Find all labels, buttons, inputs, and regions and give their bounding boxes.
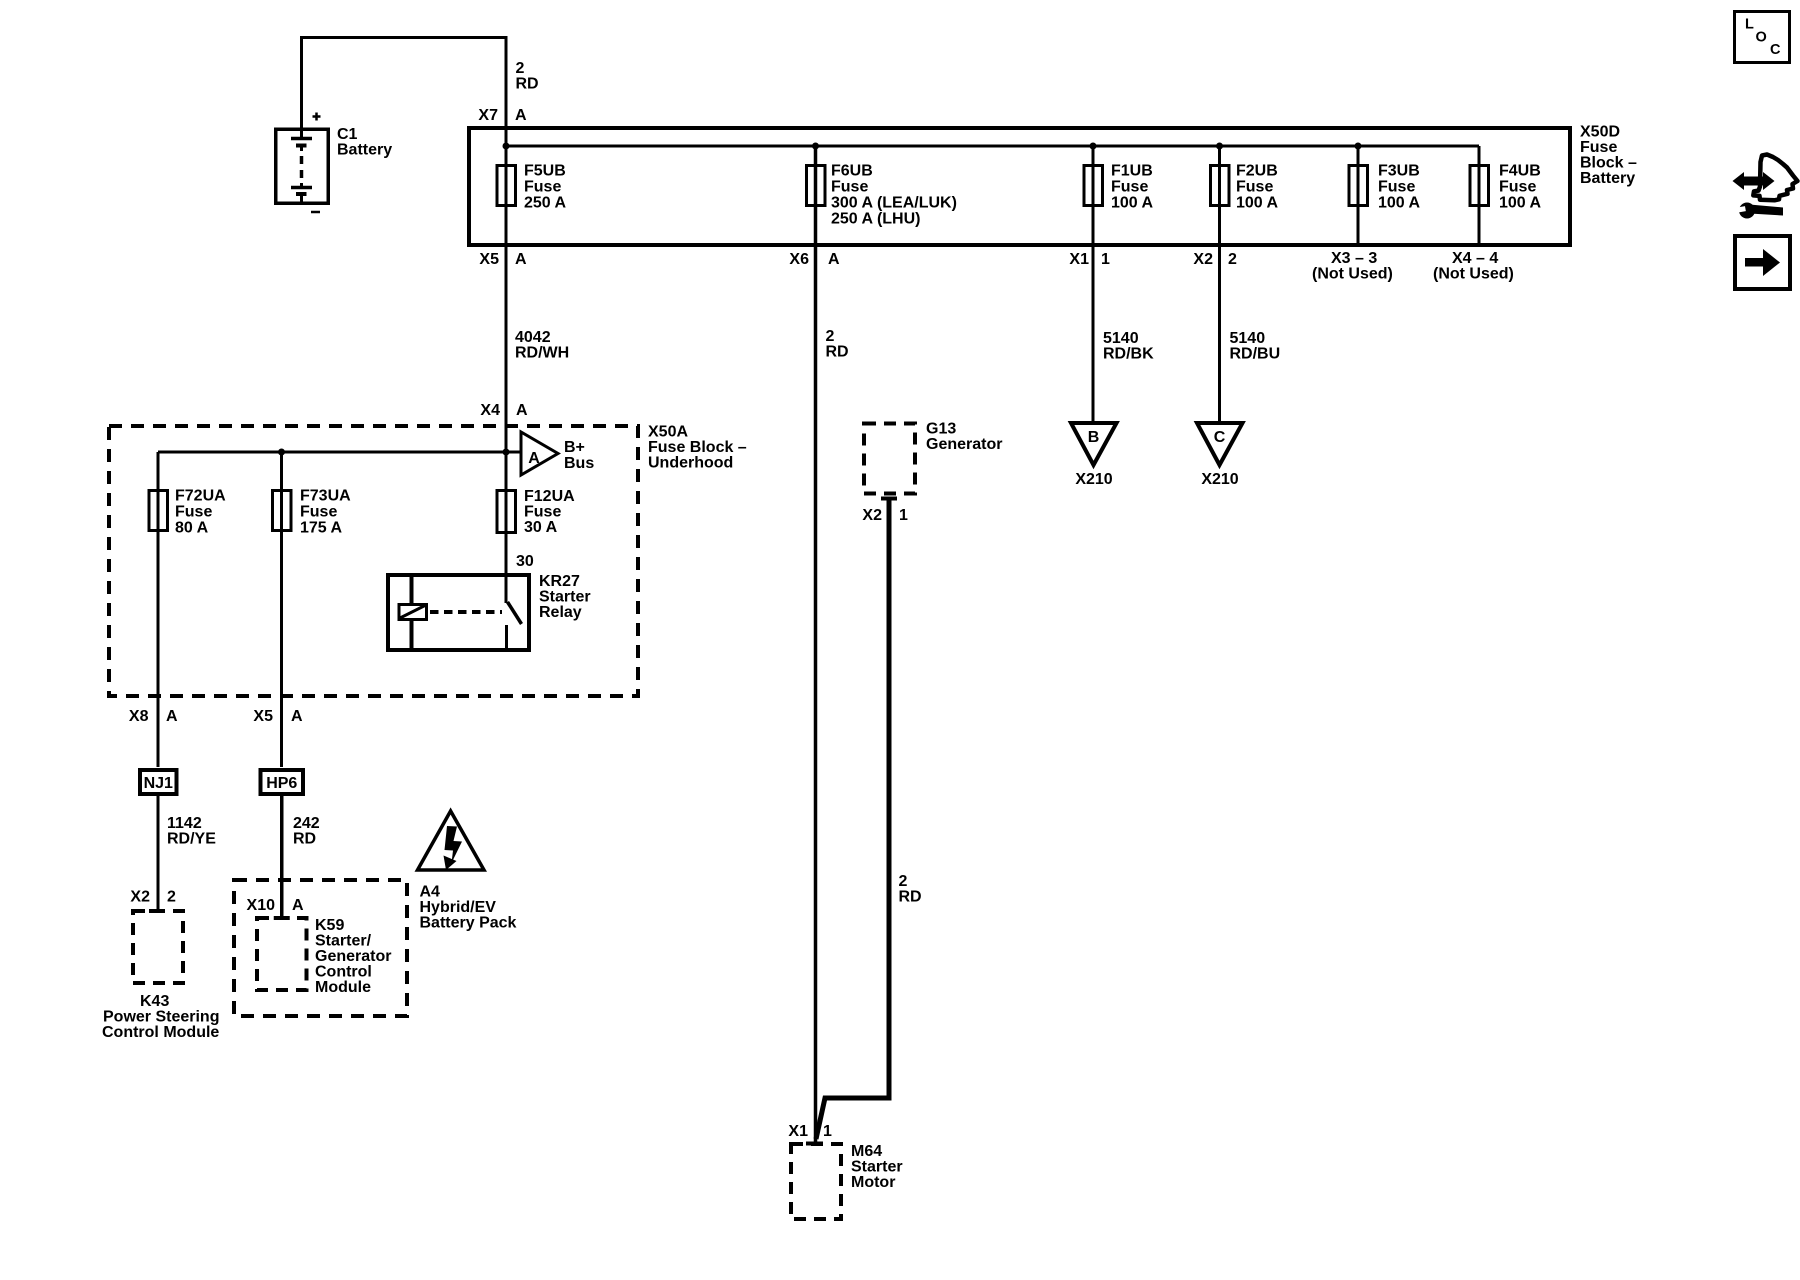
svg-text:5140: 5140 bbox=[1103, 330, 1139, 347]
wire label 4042 RD/WH bbox=[515, 329, 569, 362]
svg-text:RD: RD bbox=[516, 76, 539, 93]
svg-text:F1UB: F1UB bbox=[1111, 163, 1153, 180]
svg-text:RD/BU: RD/BU bbox=[1230, 346, 1281, 363]
relay KR27 bbox=[388, 573, 591, 650]
svg-text:2: 2 bbox=[516, 60, 525, 77]
svg-text:X6: X6 bbox=[789, 251, 809, 268]
svg-text:(Not Used): (Not Used) bbox=[1433, 266, 1514, 283]
svg-text:A: A bbox=[828, 251, 840, 268]
wire F73UA branch bbox=[280, 452, 283, 767]
svg-text:Motor: Motor bbox=[851, 1174, 895, 1191]
connector HP6 bbox=[261, 770, 304, 794]
module K43 dashed box bbox=[102, 911, 219, 1041]
svg-text:RD: RD bbox=[826, 344, 849, 361]
svg-text:X10: X10 bbox=[247, 897, 276, 914]
fuse F5UB bbox=[497, 163, 567, 212]
fuse F3UB bbox=[1349, 163, 1421, 212]
svg-text:Control: Control bbox=[315, 964, 372, 981]
wire X6 down to M64 bbox=[814, 146, 818, 1142]
svg-text:C1: C1 bbox=[337, 126, 358, 143]
wire label 242 RD bbox=[293, 815, 320, 848]
svg-text:X3 – 3: X3 – 3 bbox=[1331, 250, 1377, 267]
svg-text:2: 2 bbox=[899, 873, 908, 890]
svg-text:F3UB: F3UB bbox=[1378, 163, 1420, 180]
module K59 dashed box bbox=[257, 917, 391, 996]
svg-text:B+: B+ bbox=[564, 439, 585, 456]
svg-text:X2: X2 bbox=[862, 507, 882, 524]
fuse F2UB bbox=[1211, 163, 1279, 212]
svg-text:Fuse: Fuse bbox=[1236, 179, 1273, 196]
G13 pin T-bar bbox=[881, 497, 897, 501]
svg-text:Underhood: Underhood bbox=[648, 455, 733, 472]
wire X5 down through F5UB to X50A bus bbox=[505, 146, 508, 603]
wire F72UA branch bbox=[157, 452, 160, 767]
svg-text:RD/WH: RD/WH bbox=[515, 345, 569, 362]
wire X1 down to ground B bbox=[1092, 146, 1095, 423]
svg-text:X210: X210 bbox=[1075, 471, 1112, 488]
svg-text:F5UB: F5UB bbox=[524, 163, 566, 180]
svg-text:M64: M64 bbox=[851, 1143, 882, 1160]
svg-text:C: C bbox=[1214, 429, 1226, 446]
svg-text:O: O bbox=[1756, 30, 1767, 46]
battery pack A4 dashed box bbox=[234, 880, 407, 1016]
svg-text:Hybrid/EV: Hybrid/EV bbox=[420, 899, 497, 916]
wire HP6 to K59 bbox=[280, 794, 284, 918]
svg-text:Relay: Relay bbox=[539, 604, 582, 621]
fuse block X50D box bbox=[469, 128, 1570, 245]
svg-text:2: 2 bbox=[167, 889, 176, 906]
wire label 2 RD (X6 wire) bbox=[826, 328, 849, 361]
svg-text:RD/BK: RD/BK bbox=[1103, 346, 1154, 363]
X50A label bbox=[648, 424, 747, 472]
svg-text:HP6: HP6 bbox=[266, 775, 297, 792]
svg-text:250 A: 250 A bbox=[524, 195, 567, 212]
fuse F1UB bbox=[1084, 163, 1154, 212]
svg-text:F72UA: F72UA bbox=[175, 488, 226, 505]
svg-text:242: 242 bbox=[293, 815, 320, 832]
svg-text:X2: X2 bbox=[1193, 251, 1213, 268]
svg-text:300 A (LEA/LUK): 300 A (LEA/LUK) bbox=[831, 195, 957, 212]
svg-text:NJ1: NJ1 bbox=[144, 775, 173, 792]
generator G13 dashed box bbox=[864, 421, 1002, 494]
svg-text:X1: X1 bbox=[1069, 251, 1089, 268]
svg-text:C: C bbox=[1770, 42, 1781, 58]
svg-text:X1: X1 bbox=[788, 1123, 808, 1140]
node X5 pin A (underhood) bbox=[253, 708, 303, 725]
svg-text:Block –: Block – bbox=[1580, 155, 1637, 172]
warning triangle A4 bbox=[418, 811, 485, 870]
ground B triangle bbox=[1071, 423, 1117, 488]
svg-text:Generator: Generator bbox=[315, 948, 391, 965]
svg-text:80 A: 80 A bbox=[175, 520, 209, 537]
svg-text:100 A: 100 A bbox=[1378, 195, 1421, 212]
svg-text:X8: X8 bbox=[129, 708, 149, 725]
svg-text:KR27: KR27 bbox=[539, 573, 580, 590]
service info icon (arrow, outline, wrench) bbox=[1733, 155, 1798, 219]
svg-text:A4: A4 bbox=[420, 884, 441, 901]
M64 pin T-bar bbox=[806, 1142, 823, 1146]
svg-text:Power Steering: Power Steering bbox=[103, 1009, 219, 1026]
svg-text:Starter: Starter bbox=[851, 1159, 903, 1176]
svg-text:Fuse: Fuse bbox=[831, 179, 868, 196]
svg-text:(Not Used): (Not Used) bbox=[1312, 266, 1393, 283]
svg-text:Battery: Battery bbox=[337, 142, 392, 159]
svg-text:X5: X5 bbox=[253, 708, 273, 725]
fuse F73UA bbox=[273, 488, 352, 537]
svg-text:Fuse: Fuse bbox=[1111, 179, 1148, 196]
svg-text:100 A: 100 A bbox=[1236, 195, 1279, 212]
svg-text:Control Module: Control Module bbox=[102, 1024, 219, 1041]
wire label 5140 RD/BU bbox=[1230, 330, 1281, 363]
svg-text:X7: X7 bbox=[478, 107, 498, 124]
wire G13 to M64 bbox=[816, 497, 889, 1139]
LOC legend box bbox=[1735, 12, 1790, 63]
svg-text:A: A bbox=[516, 402, 528, 419]
svg-text:L: L bbox=[1745, 17, 1754, 33]
svg-text:Fuse: Fuse bbox=[524, 179, 561, 196]
svg-text:X5: X5 bbox=[479, 251, 499, 268]
A4 label bbox=[420, 884, 517, 932]
bus wire A inside X50D bbox=[503, 143, 1480, 150]
svg-text:Generator: Generator bbox=[926, 436, 1002, 453]
wire battery positive to X7 bbox=[302, 38, 507, 147]
svg-text:2: 2 bbox=[1228, 251, 1237, 268]
svg-text:Fuse: Fuse bbox=[300, 504, 337, 521]
bus wire inside X50A bbox=[158, 449, 521, 456]
svg-text:30 A: 30 A bbox=[524, 519, 558, 536]
svg-text:A: A bbox=[291, 708, 303, 725]
svg-text:2: 2 bbox=[826, 328, 835, 345]
svg-text:Fuse: Fuse bbox=[1499, 179, 1536, 196]
svg-text:K43: K43 bbox=[140, 993, 169, 1010]
node X7 pin A bbox=[478, 107, 527, 124]
wire X2 down to ground C bbox=[1218, 146, 1221, 423]
svg-text:Fuse: Fuse bbox=[1580, 139, 1617, 156]
svg-text:100 A: 100 A bbox=[1499, 195, 1542, 212]
node X8 pin A bbox=[129, 708, 178, 725]
svg-text:1: 1 bbox=[1101, 251, 1110, 268]
node X1 pin 1 (M64) bbox=[788, 1123, 832, 1140]
svg-text:175 A: 175 A bbox=[300, 520, 343, 537]
X50D label bbox=[1580, 124, 1637, 188]
battery C1 bbox=[276, 113, 392, 213]
svg-text:F12UA: F12UA bbox=[524, 488, 575, 505]
svg-text:F4UB: F4UB bbox=[1499, 163, 1541, 180]
wire label 2 RD bbox=[516, 60, 539, 93]
node X2 pin 1 (G13) bbox=[862, 507, 908, 524]
svg-text:Module: Module bbox=[315, 979, 371, 996]
svg-text:X2: X2 bbox=[130, 889, 150, 906]
wire label 5140 RD/BK bbox=[1103, 330, 1154, 363]
svg-text:K59: K59 bbox=[315, 917, 344, 934]
svg-text:A: A bbox=[528, 450, 540, 467]
svg-text:X4: X4 bbox=[480, 402, 500, 419]
svg-text:100 A: 100 A bbox=[1111, 195, 1154, 212]
wire label 1142 RD/YE bbox=[167, 815, 216, 848]
node X10 pin A bbox=[247, 897, 304, 914]
svg-text:Battery Pack: Battery Pack bbox=[420, 915, 517, 932]
node X2 pin 2 bbox=[130, 889, 176, 906]
svg-text:X50A: X50A bbox=[648, 424, 688, 441]
svg-text:Fuse: Fuse bbox=[524, 504, 561, 521]
svg-text:30: 30 bbox=[516, 553, 534, 570]
fuse F6UB bbox=[807, 163, 957, 228]
wire X3 not used bbox=[1357, 146, 1360, 243]
svg-text:RD: RD bbox=[293, 831, 316, 848]
svg-text:A: A bbox=[166, 708, 178, 725]
wire label 2 RD (G13 wire) bbox=[899, 873, 922, 906]
svg-text:Fuse: Fuse bbox=[1378, 179, 1415, 196]
connector NJ1 bbox=[140, 770, 177, 794]
svg-text:RD/YE: RD/YE bbox=[167, 831, 216, 848]
fuse F4UB bbox=[1470, 163, 1542, 212]
svg-text:B: B bbox=[1088, 429, 1100, 446]
ground C triangle bbox=[1197, 423, 1243, 488]
svg-text:A: A bbox=[292, 897, 304, 914]
next-page arrow box bbox=[1735, 236, 1790, 289]
svg-text:G13: G13 bbox=[926, 421, 956, 438]
B+ Bus triangle bbox=[521, 432, 594, 475]
svg-text:Battery: Battery bbox=[1580, 170, 1635, 187]
svg-text:A: A bbox=[515, 107, 527, 124]
svg-text:1: 1 bbox=[899, 507, 908, 524]
svg-text:Starter: Starter bbox=[539, 589, 591, 606]
svg-text:4042: 4042 bbox=[515, 329, 551, 346]
svg-text:RD: RD bbox=[899, 889, 922, 906]
svg-text:X210: X210 bbox=[1201, 471, 1238, 488]
node X4 pin A bbox=[480, 402, 528, 419]
fuse F72UA bbox=[149, 488, 226, 537]
svg-text:250 A (LHU): 250 A (LHU) bbox=[831, 211, 921, 228]
svg-text:F2UB: F2UB bbox=[1236, 163, 1278, 180]
svg-text:X50D: X50D bbox=[1580, 124, 1620, 141]
starter motor M64 dashed box bbox=[791, 1143, 903, 1219]
svg-text:Starter/: Starter/ bbox=[315, 933, 372, 950]
svg-text:1142: 1142 bbox=[167, 815, 202, 832]
svg-text:1: 1 bbox=[823, 1123, 832, 1140]
svg-text:Bus: Bus bbox=[564, 455, 594, 472]
svg-text:X4 – 4: X4 – 4 bbox=[1452, 250, 1498, 267]
svg-text:F73UA: F73UA bbox=[300, 488, 351, 505]
svg-text:F6UB: F6UB bbox=[831, 163, 873, 180]
wire NJ1 to K43 bbox=[157, 794, 160, 911]
pin labels under X50D bbox=[479, 250, 1513, 283]
svg-text:Fuse: Fuse bbox=[175, 504, 212, 521]
svg-text:A: A bbox=[515, 251, 527, 268]
fuse block X50A dashed box bbox=[109, 426, 638, 696]
wire X4 not used bbox=[1478, 146, 1481, 243]
svg-text:Fuse Block –: Fuse Block – bbox=[648, 439, 747, 456]
fuse F12UA bbox=[497, 488, 575, 536]
svg-text:5140: 5140 bbox=[1230, 330, 1266, 347]
